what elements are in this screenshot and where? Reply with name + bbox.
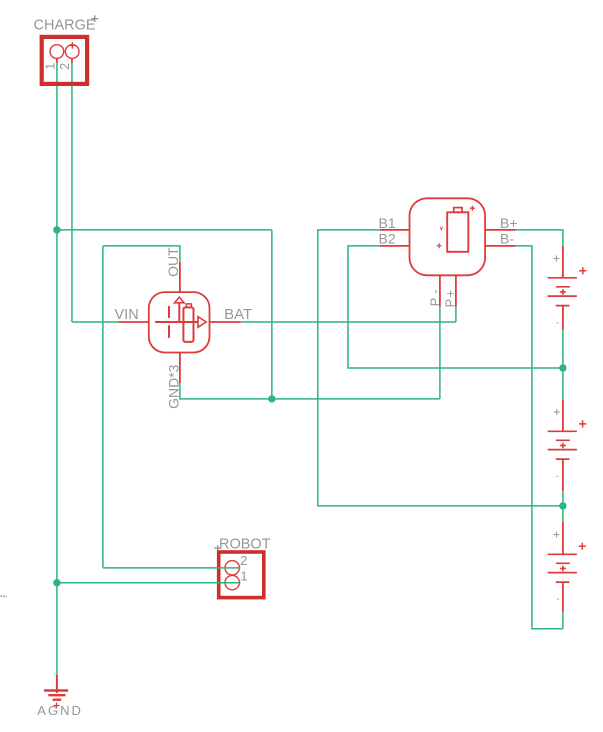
svg-text:OUT: OUT [165, 247, 181, 277]
wire P- vertical [439, 307, 441, 399]
charger IC icon horizontal arrow [155, 321, 197, 323]
wire B2 to node C [348, 246, 563, 368]
svg-text:1: 1 [240, 569, 247, 584]
node B junction (GND / P-) [268, 395, 275, 402]
charger IC icon battery [183, 307, 193, 342]
wire battery 3 bottom to corner [562, 612, 564, 629]
charger IC pin stub VIN [119, 321, 149, 323]
svg-text:2: 2 [240, 553, 247, 568]
wire B+ to battery 1 top [516, 230, 563, 246]
wire B1 to node D [318, 230, 563, 506]
charger IC pin stub GND*3 [179, 353, 181, 384]
svg-text:P+: P+ [442, 288, 457, 307]
connector CHARGE pin 2 pad [65, 45, 79, 59]
connector CHARGE pin 1 stub [56, 58, 58, 63]
svg-text:BAT: BAT [224, 306, 252, 323]
battery 3 bottom pin [562, 582, 564, 612]
wire OUT column down to ROBOT.2 [102, 246, 104, 568]
wire node E down to AGND [56, 583, 58, 675]
connector CHARGE body [42, 37, 87, 84]
node A junction [53, 226, 60, 233]
ground AGND plates [44, 691, 68, 700]
battery 1 plates [548, 278, 577, 306]
svg-text:B+: B+ [500, 215, 518, 231]
wire to ROBOT.2 horizontal [103, 567, 241, 569]
connector ROBOT origin cross [214, 545, 221, 550]
charger IC body [149, 292, 210, 352]
battery 2 plus sign [579, 420, 586, 427]
battery 1 minus pin mark [556, 322, 558, 324]
battery 3 top pin [562, 522, 564, 555]
wire OUT horizontal [103, 246, 180, 262]
wire node D to battery 3 top [562, 506, 564, 522]
battery 3 plus sign [579, 543, 586, 550]
wire battery 2 bottom to node D [562, 491, 564, 506]
wire CHARGE.2 down to VIN [71, 62, 73, 322]
battery 2 top pin [562, 399, 564, 431]
battery 3 plus pin mark [554, 532, 560, 538]
protection module icon battery [447, 212, 468, 252]
protection module small plus [437, 243, 442, 248]
wire B- down and across bottom [516, 246, 563, 629]
battery 3 plates [548, 554, 577, 582]
battery 1 plus pin mark [554, 256, 560, 262]
node C junction (B2 / batteries) [559, 364, 566, 371]
battery 1 bottom pin [562, 306, 564, 330]
charger IC icon up arrow [178, 303, 180, 322]
battery 2 plus pin mark [554, 409, 560, 415]
svg-text:GND*3: GND*3 [165, 364, 181, 409]
battery 1 top pin [562, 246, 564, 278]
ground AGND stub [56, 675, 58, 693]
svg-text:2: 2 [58, 63, 72, 70]
svg-text:B-: B- [500, 231, 514, 247]
svg-text:VIN: VIN [115, 307, 139, 323]
battery 2 mid polarity cross [560, 443, 566, 449]
connector CHARGE pin 1 pad [50, 45, 64, 59]
wire battery 1 bottom to node C [562, 330, 564, 368]
wire node E to ROBOT.1 horizontal [57, 582, 241, 584]
connector CHARGE origin cross [91, 15, 98, 22]
svg-text:B1: B1 [379, 215, 396, 231]
wire BAT to P+ [241, 321, 456, 323]
wire node A to GND column (horizontal) [57, 229, 272, 231]
svg-text:P-: P- [427, 285, 442, 306]
connector ROBOT pin 2 pad [225, 561, 239, 575]
battery 2 bottom pin [562, 459, 564, 491]
wire node C to battery 2 top [562, 368, 564, 399]
protection module body [410, 198, 486, 275]
protection module pin stub B+ [485, 229, 516, 231]
charger IC icon dashes [168, 306, 170, 338]
battery 1 mid polarity cross [560, 289, 566, 295]
wire node A down to node E [56, 230, 58, 583]
edge artifact dots [1, 595, 7, 597]
battery 1 plus sign [579, 267, 586, 274]
wire CHARGE.1 down to node A [56, 62, 58, 230]
wire VIN horizontal [72, 321, 119, 323]
node E junction (GND / ROBOT.1) [53, 579, 60, 586]
protection module small v mark [440, 227, 443, 230]
protection module origin cross [470, 206, 475, 211]
wire P+ vertical [455, 307, 457, 322]
connector ROBOT body [219, 552, 264, 598]
node D junction (B1 / batteries) [559, 502, 566, 509]
protection module pin stub B- [485, 245, 515, 247]
wire GND column vertical [271, 230, 273, 399]
battery 3 mid polarity cross [560, 566, 566, 572]
protection module pin stub B1 [380, 229, 410, 231]
protection module pin stub P- [439, 275, 441, 307]
charger IC pin stub BAT [210, 321, 241, 323]
svg-text:AGND: AGND [37, 703, 83, 718]
battery 2 minus pin mark [556, 475, 558, 477]
svg-text:1: 1 [44, 63, 58, 70]
ground AGND origin cross [54, 703, 60, 709]
protection module pin stub B2 [380, 245, 410, 247]
svg-text:CHARGE: CHARGE [34, 18, 96, 34]
connector ROBOT pin 1 pad [225, 575, 239, 589]
svg-text:B2: B2 [379, 231, 396, 247]
connector CHARGE pin 2 stub [71, 58, 73, 63]
charger IC pin stub OUT [179, 262, 181, 292]
protection module pin stub P+ [455, 275, 457, 307]
wire GND net horizontal to P- [180, 383, 440, 399]
battery 3 minus pin mark [557, 598, 559, 600]
svg-text:ROBOT: ROBOT [219, 537, 271, 553]
connector CHARGE pin 2 polarity mark [69, 42, 76, 48]
battery 2 plates [548, 431, 577, 459]
